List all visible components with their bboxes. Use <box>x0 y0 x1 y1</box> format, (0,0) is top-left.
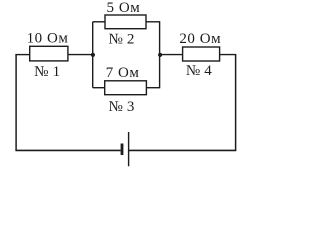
wire R2 to right branch <box>146 21 160 23</box>
wire node A top to R2 <box>93 21 105 23</box>
svg-text:№ 1: № 1 <box>34 64 60 80</box>
wire bottom left segment <box>15 149 120 151</box>
resistor R1 (№ 1, 10 Ом) <box>30 46 68 61</box>
wire R1 to node A <box>68 54 93 56</box>
battery BT1 short plate (negative) <box>121 144 124 156</box>
resistor R3 (№ 3, 7 Ом) <box>105 81 147 95</box>
resistor R2 (№ 2, 5 Ом) <box>105 15 146 29</box>
svg-text:№ 2: № 2 <box>108 31 134 47</box>
svg-text:10 Ом: 10 Ом <box>27 30 69 46</box>
svg-text:№ 3: № 3 <box>108 99 134 115</box>
wire R3 to right branch <box>146 87 160 89</box>
svg-text:7 Ом: 7 Ом <box>106 65 140 81</box>
resistor R4 (№ 4, 20 Ом) <box>183 47 220 61</box>
svg-text:№ 4: № 4 <box>186 63 212 79</box>
wire node B to R4 <box>160 54 183 56</box>
node B junction dot <box>158 53 162 57</box>
node A junction dot <box>91 53 95 57</box>
svg-text:5 Ом: 5 Ом <box>107 0 141 16</box>
svg-text:20 Ом: 20 Ом <box>179 31 221 47</box>
wire bottom right segment <box>129 149 237 151</box>
wire from left corner to R1 <box>15 54 29 56</box>
battery BT1 long plate (positive) <box>128 132 130 166</box>
wire node A bottom to R3 <box>93 87 105 89</box>
wire right frame vertical <box>235 55 237 151</box>
wire right branch vertical <box>159 22 161 88</box>
wire R4 to right corner <box>220 54 237 56</box>
wire left frame vertical <box>15 55 17 151</box>
wire left branch vertical <box>92 22 94 88</box>
